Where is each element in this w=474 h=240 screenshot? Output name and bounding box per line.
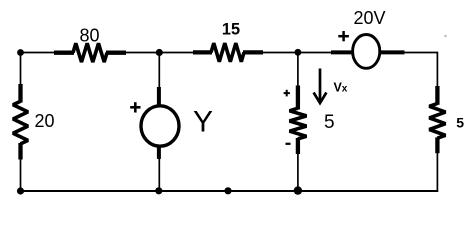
- polarity + (top of middle 5 resistor): [284, 90, 290, 97]
- wire 20V source to top-right corner: [381, 52, 437, 54]
- wire left branch vertical upper: [20, 52, 22, 102]
- resistor 80 (top left, horizontal): [54, 43, 126, 62]
- node A (top left junction): [17, 49, 24, 56]
- wire top-left horizontal (node A to R80): [21, 52, 74, 54]
- wire node C branch vertical lower: [297, 139, 299, 191]
- wire R80 to node B: [107, 52, 159, 54]
- resistor 5 (right branch, vertical): [429, 86, 445, 153]
- polarity - (bottom of middle 5 resistor): [286, 143, 291, 145]
- wire middle branch vertical upper (node B to source Y): [158, 53, 160, 107]
- wire node B to R15: [159, 52, 211, 54]
- source Y (middle branch, circle): [141, 87, 179, 159]
- wire bottom horizontal: [20, 190, 439, 192]
- resistor 15 (top middle, horizontal): [193, 43, 263, 62]
- bottom node 1 (left corner junction): [17, 187, 24, 194]
- node C (top right junction): [295, 49, 302, 56]
- vx reference arrow (downward): [314, 69, 327, 104]
- wire R15 to node C: [244, 52, 298, 54]
- svg-text:20V: 20V: [354, 8, 386, 28]
- bottom node 3 (mid span junction): [224, 187, 231, 194]
- source 20V (top right, circle): [331, 35, 405, 69]
- wire node C to 20V source: [298, 52, 353, 54]
- bottom node 4 (below middle 5 resistor): [294, 186, 302, 194]
- svg-text:5: 5: [456, 115, 464, 131]
- wire left branch vertical lower: [20, 144, 22, 191]
- node B (top middle junction): [156, 49, 163, 56]
- polarity + of source 20V: [338, 31, 349, 41]
- svg-text:15: 15: [222, 20, 240, 38]
- svg-text:5: 5: [324, 112, 335, 133]
- wire middle branch vertical lower (source Y to bottom node): [158, 145, 160, 191]
- svg-text:20: 20: [35, 111, 55, 131]
- resistor 5 (middle-right branch, vertical): [290, 86, 307, 155]
- bottom node 2 (below source Y): [155, 187, 162, 194]
- stray ink speck (top right): [444, 35, 446, 37]
- wire right branch vertical lower: [436, 138, 438, 192]
- wire node C branch vertical upper: [297, 53, 299, 109]
- polarity + of source Y: [130, 102, 140, 112]
- svg-text:Y: Y: [193, 106, 213, 139]
- resistor 20 (left branch, vertical): [13, 84, 28, 160]
- svg-text:x: x: [342, 84, 348, 95]
- wire right branch vertical upper: [436, 52, 438, 104]
- svg-text:80: 80: [80, 25, 100, 45]
